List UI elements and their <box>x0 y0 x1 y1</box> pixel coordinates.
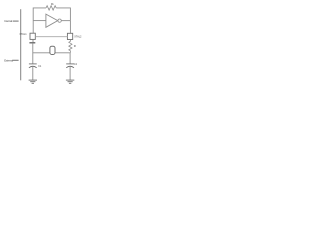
junction bar <box>29 42 35 44</box>
pin XTAL1 <box>30 33 35 39</box>
wire inverter output <box>61 20 70 22</box>
wire crystal net <box>33 52 71 54</box>
chip boundary line <box>20 9 22 80</box>
svg-text:Internal: Internal <box>4 19 12 23</box>
resistor Rs <box>69 40 72 53</box>
pin XTAL2 <box>67 33 72 39</box>
capacitor C1 <box>29 64 37 68</box>
label XTAL2 <box>74 35 82 38</box>
label External <box>4 59 18 63</box>
wire inverter input <box>33 20 46 22</box>
label XTAL1 <box>19 33 27 36</box>
svg-text:XTAL2: XTAL2 <box>74 35 82 38</box>
label Internal <box>4 19 18 23</box>
svg-text:External: External <box>4 59 13 63</box>
resistor Rf <box>46 6 56 10</box>
wire C1 to ground <box>32 67 34 81</box>
label Rf <box>51 2 54 6</box>
ground C1 <box>29 80 37 83</box>
op-amp U1 inverter <box>46 14 58 27</box>
svg-text:XTAL1: XTAL1 <box>19 33 27 36</box>
capacitor C2 <box>66 64 74 68</box>
inverter bubble <box>58 19 61 22</box>
ground C2 <box>66 80 74 83</box>
wire pin to pin <box>35 36 67 38</box>
wire XTAL2 drop <box>69 21 71 34</box>
wire C2 to ground <box>69 67 71 81</box>
wire XTAL1 stub down <box>32 40 34 43</box>
crystal Y1 <box>50 46 55 54</box>
label Rs <box>74 44 76 48</box>
wire left branch down <box>32 43 34 64</box>
label C2 <box>74 63 78 66</box>
wire right branch down <box>69 53 71 64</box>
svg-text:R: R <box>74 44 76 48</box>
label C1 <box>38 65 42 68</box>
wire XTAL1 drop <box>32 21 34 34</box>
background <box>0 0 90 90</box>
wire top feedback right <box>56 8 70 21</box>
wire top feedback left <box>33 8 46 21</box>
